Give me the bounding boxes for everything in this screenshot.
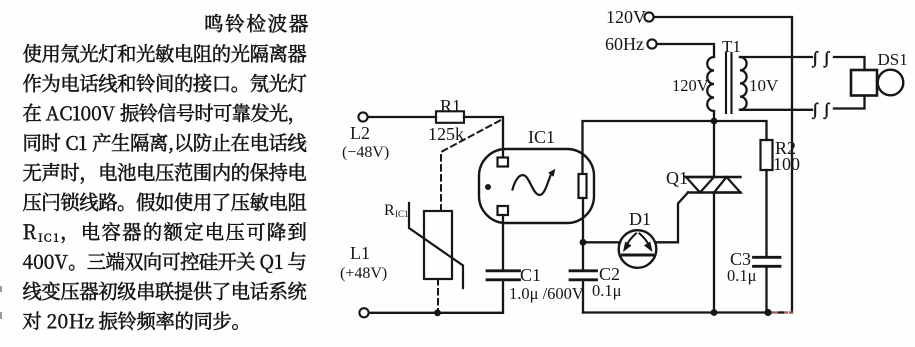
svg-text:R1: R1: [440, 96, 461, 116]
label -48V: [342, 144, 389, 161]
wire C3 to bottom rail: [765, 266, 767, 312]
svg-text:120V: 120V: [672, 76, 709, 95]
label 10V secondary: [749, 76, 779, 95]
terminal 120V: [644, 12, 653, 21]
label C1 value: [509, 284, 584, 303]
bottom rail red-marked segment: [772, 311, 792, 313]
svg-text:(−48V): (−48V): [342, 144, 389, 161]
svg-text:10V: 10V: [749, 76, 779, 95]
wire L1 to C1 bottom: [369, 280, 503, 313]
varistor diagonal stroke: [409, 203, 463, 288]
label T1: [722, 37, 741, 56]
diac D1 envelope: [619, 230, 657, 268]
label R_IC1: [384, 202, 409, 219]
svg-text:∫: ∫: [824, 48, 831, 68]
transformer T1 primary winding 120V: [707, 57, 714, 111]
label 60Hz: [605, 34, 644, 54]
wire IC1 photoresistor to C2 node: [582, 198, 584, 271]
diac D1 arrows: [623, 234, 653, 253]
resistor R2: [761, 140, 773, 170]
resistor R1: [436, 111, 464, 123]
wire T1 primary bottom to node: [713, 111, 715, 121]
IC1 neon electrode pad top: [498, 158, 509, 167]
label D1: [629, 209, 651, 229]
schematic labels: [340, 7, 908, 303]
junction node C2/D1: [580, 239, 587, 246]
capacitor C2: [570, 271, 597, 280]
svg-text:1.0μ /600V: 1.0μ /600V: [509, 284, 584, 303]
transformer T1 core: [726, 53, 732, 113]
svg-text:C1: C1: [520, 265, 541, 285]
wire secondary bottom to jack: [740, 109, 812, 111]
bell DS1 gong: [878, 70, 904, 96]
IC1 neon electrode pad bottom: [498, 206, 509, 215]
svg-text:T1: T1: [722, 37, 741, 56]
wire C2 to bottom rail: [582, 280, 584, 313]
jack hook bottom right: [824, 99, 831, 119]
opto-isolator IC1 envelope: [479, 149, 594, 223]
wire jack to bell top: [834, 57, 865, 70]
wire bell bottom to jack: [834, 96, 865, 109]
label +48V: [340, 265, 387, 282]
svg-text:IC1: IC1: [528, 127, 555, 147]
wire Q1 MT2 up: [713, 121, 715, 177]
label 120V primary: [672, 76, 709, 95]
label R2: [775, 138, 796, 158]
wire D1 to Q1 gate: [656, 193, 689, 243]
label C3: [730, 249, 751, 269]
label DS1: [878, 50, 908, 69]
diac D1 internal bar: [623, 254, 653, 257]
label C3 value: [727, 266, 757, 285]
svg-text:Q1: Q1: [666, 168, 688, 188]
label 120V top: [606, 7, 646, 27]
paragraph text: [23, 14, 308, 330]
label IC1: [528, 127, 555, 147]
svg-text:R: R: [384, 202, 395, 219]
bell DS1 striker box: [851, 70, 877, 96]
svg-text:0.1μ: 0.1μ: [727, 266, 757, 285]
wire photoresistor net: IC1 top to R2 top: [583, 121, 767, 174]
capacitor C3: [754, 257, 781, 266]
IC1 light squiggle arrow: [513, 169, 556, 195]
svg-text:∫: ∫: [824, 99, 831, 119]
varistor dashed link from R1 node: [441, 121, 500, 212]
bottom rail: [583, 311, 771, 313]
label C2: [599, 264, 620, 284]
junction node T1/Q1: [711, 118, 718, 125]
label C2 value: [592, 281, 622, 300]
label Q1: [666, 168, 688, 188]
IC1 photoresistor element: [579, 174, 587, 198]
svg-text:D1: D1: [629, 209, 651, 229]
svg-text:60Hz: 60Hz: [605, 34, 644, 54]
label R1: [440, 96, 461, 116]
junction node Q1/rail: [711, 309, 718, 316]
jack hook top left: [812, 48, 819, 68]
label 125k: [428, 124, 464, 144]
varistor dashed link to L1 wire: [437, 279, 439, 313]
junction node varistor/L1: [434, 309, 441, 316]
svg-text:120V: 120V: [606, 7, 646, 27]
svg-text:100: 100: [773, 154, 800, 174]
wire 60Hz to T1 primary: [657, 44, 714, 57]
IC1 gas dot: [485, 184, 491, 190]
wire Q1 MT1 to bottom rail: [713, 193, 715, 313]
svg-text:(+48V): (+48V): [340, 265, 387, 282]
wire R2 to C3: [765, 170, 767, 257]
wire node to diac D1: [583, 241, 620, 243]
label L1: [350, 243, 370, 263]
wire L2 to R1: [368, 116, 436, 118]
transformer T1 secondary winding 10V: [740, 57, 747, 110]
varistor R_IC1 body: [424, 211, 452, 279]
jack hook bottom left: [812, 99, 819, 119]
svg-text:∫: ∫: [812, 48, 819, 68]
label L2: [350, 123, 370, 143]
svg-text:125k: 125k: [428, 124, 464, 144]
wire R1 to IC1 top pin: [464, 117, 503, 158]
svg-text:L2: L2: [350, 123, 370, 143]
svg-text:L1: L1: [350, 243, 370, 263]
svg-text:IC1: IC1: [395, 209, 409, 219]
junction node C3/rail: [764, 309, 771, 316]
terminal L2: [358, 112, 367, 121]
capacitor C1: [487, 271, 520, 280]
terminal 60Hz: [647, 39, 656, 48]
wire secondary top to jack: [740, 56, 812, 58]
wire IC1 bottom pin to C1: [502, 215, 504, 270]
label C1: [520, 265, 541, 285]
svg-text:0.1μ: 0.1μ: [592, 281, 622, 300]
svg-text:DS1: DS1: [878, 50, 908, 69]
terminal L1: [359, 308, 368, 317]
jack hook top right: [824, 48, 831, 68]
triac Q1: [686, 177, 741, 193]
label R2 value: [773, 154, 800, 174]
wire 120V to right rail down to bottom: [654, 17, 792, 313]
scan edge marks: [0, 286, 2, 319]
